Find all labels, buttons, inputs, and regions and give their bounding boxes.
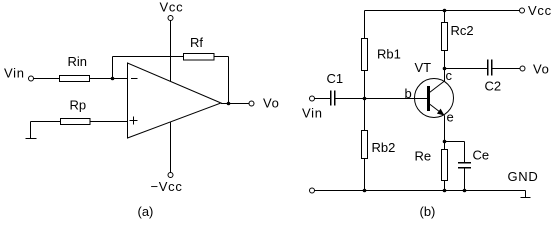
svg-text:(b): (b) bbox=[420, 204, 436, 219]
svg-text:Rf: Rf bbox=[190, 35, 203, 50]
svg-text:Vo: Vo bbox=[533, 62, 550, 77]
svg-text:Rp: Rp bbox=[70, 98, 87, 113]
svg-text:Re: Re bbox=[415, 149, 432, 164]
svg-text:e: e bbox=[447, 110, 454, 125]
svg-text:Vin: Vin bbox=[4, 66, 25, 81]
svg-text:Ce: Ce bbox=[473, 148, 490, 163]
svg-text:Vcc: Vcc bbox=[160, 0, 184, 15]
svg-text:Vcc: Vcc bbox=[528, 3, 552, 18]
svg-text:C1: C1 bbox=[327, 71, 344, 86]
svg-text:Vo: Vo bbox=[263, 96, 280, 111]
svg-text:Rc2: Rc2 bbox=[451, 23, 474, 38]
svg-text:Rb2: Rb2 bbox=[372, 140, 396, 155]
svg-text:−Vcc: −Vcc bbox=[151, 179, 183, 194]
svg-text:(a): (a) bbox=[138, 204, 154, 219]
svg-text:VT: VT bbox=[415, 60, 432, 75]
svg-text:b: b bbox=[405, 86, 412, 101]
svg-text:GND: GND bbox=[508, 169, 539, 184]
svg-text:C2: C2 bbox=[485, 79, 502, 94]
svg-text:c: c bbox=[446, 68, 453, 83]
svg-text:Rb1: Rb1 bbox=[377, 47, 401, 62]
svg-text:Vin: Vin bbox=[302, 106, 323, 121]
svg-text:Rin: Rin bbox=[68, 54, 88, 69]
